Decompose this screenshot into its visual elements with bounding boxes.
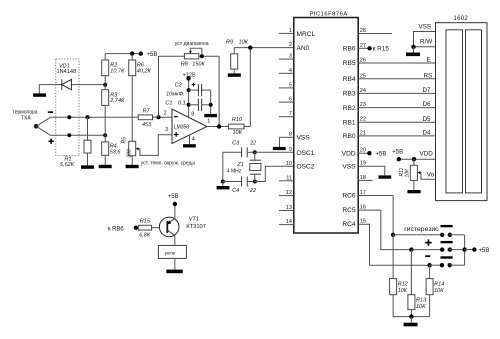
ground (oscillator) <box>217 182 230 190</box>
node to RB6 <box>108 226 138 233</box>
plus label row2 <box>425 242 431 244</box>
pin 20 VDD +5V <box>342 148 387 158</box>
pin 15 RC4 <box>342 219 366 229</box>
potentiometer R8 <box>158 48 219 126</box>
resistor R12 <box>390 235 408 317</box>
wire pin16 to row2 <box>358 210 411 250</box>
svg-text:к RB6: к RB6 <box>108 226 125 232</box>
LCD pin R/W <box>411 39 435 50</box>
diode VD1 <box>39 79 105 90</box>
svg-text:+5В: +5В <box>147 52 158 58</box>
wire C3/C4 left leg <box>222 152 224 181</box>
svg-text:28: 28 <box>360 28 366 34</box>
svg-text:+5В: +5В <box>479 248 490 254</box>
resistor R1 <box>60 117 91 168</box>
switch SA2 (plus) <box>409 241 464 252</box>
node inverting input <box>157 115 161 119</box>
svg-text:RB1: RB1 <box>343 119 356 126</box>
minus label row3 <box>425 255 430 257</box>
svg-text:R7: R7 <box>143 109 151 115</box>
pin 17 RC6 <box>342 190 366 200</box>
plus polarity mark <box>48 139 53 144</box>
svg-text:3: 3 <box>289 54 292 60</box>
ground (R9) <box>228 73 241 76</box>
+12V supply <box>183 72 196 80</box>
svg-text:R15: R15 <box>140 219 151 225</box>
pin 8 VSS with ground <box>273 132 310 150</box>
svg-text:40,2К: 40,2К <box>137 68 152 74</box>
svg-text:D4: D4 <box>423 130 432 137</box>
svg-text:12: 12 <box>286 190 292 196</box>
svg-text:R9: R9 <box>226 40 233 46</box>
wire OSC2 <box>255 166 294 181</box>
svg-text:R8: R8 <box>181 62 189 68</box>
pin 14 <box>279 219 294 225</box>
svg-text:20: 20 <box>360 148 366 154</box>
pin 3 <box>279 54 294 60</box>
svg-text:C2: C2 <box>175 83 182 89</box>
svg-text:RS: RS <box>424 73 433 80</box>
ground (R/W VSS) <box>406 47 420 56</box>
capacitor C4 <box>223 177 256 194</box>
svg-text:6: 6 <box>289 97 292 103</box>
ground (relay) <box>166 270 183 274</box>
svg-text:RB2: RB2 <box>343 105 356 112</box>
pin 16 RC5 <box>342 205 366 215</box>
pin 6 <box>279 97 294 103</box>
svg-text:R13: R13 <box>416 298 427 304</box>
svg-text:6,8К: 6,8К <box>139 233 151 239</box>
node R2/R3 junction <box>103 83 107 87</box>
svg-text:ТХА: ТХА <box>21 116 31 122</box>
resistor R15 <box>139 219 160 239</box>
svg-text:1N4148: 1N4148 <box>57 69 77 75</box>
capacitor C1 <box>165 99 210 111</box>
switch SA3 (minus) <box>427 256 464 267</box>
svg-text:PIC16F876A: PIC16F876A <box>310 12 348 18</box>
pin 24 RB3 wire to D7 <box>343 88 436 98</box>
svg-text:D5: D5 <box>423 116 432 123</box>
svg-text:AN0: AN0 <box>297 45 310 52</box>
svg-text:OSC1: OSC1 <box>297 150 315 157</box>
svg-text:VSS: VSS <box>297 135 311 142</box>
svg-text:10: 10 <box>286 161 292 167</box>
pin 12 <box>279 190 294 196</box>
capacitor C2 <box>166 83 211 98</box>
svg-text:LM358: LM358 <box>174 125 190 131</box>
pin 18 stub <box>358 175 372 181</box>
wire upper thermocouple line to R7 <box>50 116 138 118</box>
LCD pin VDD with +5V <box>392 149 435 161</box>
svg-text:Vo: Vo <box>427 172 435 179</box>
svg-text:1: 1 <box>289 28 292 34</box>
svg-text:RB3: RB3 <box>343 91 356 98</box>
svg-text:27: 27 <box>360 43 366 49</box>
svg-text:11: 11 <box>286 175 292 181</box>
svg-text:10,7К: 10,7К <box>110 68 125 74</box>
ground (R12 R13 R14) <box>404 317 418 327</box>
ground (R5) <box>126 165 139 168</box>
diode VD1 label <box>57 63 77 75</box>
svg-text:24: 24 <box>360 88 366 94</box>
svg-text:453: 453 <box>142 122 152 128</box>
svg-text:10К: 10К <box>404 168 410 178</box>
svg-text:7: 7 <box>289 111 292 117</box>
resistor R3 <box>102 90 125 136</box>
svg-text:10К: 10К <box>239 40 249 46</box>
ground (VD1 left) <box>33 85 46 97</box>
node on upper wire <box>67 115 71 119</box>
svg-text:OSC2: OSC2 <box>297 164 315 171</box>
svg-text:3: 3 <box>165 127 168 133</box>
svg-text:15: 15 <box>360 219 366 225</box>
thermocouple junction node <box>34 117 50 135</box>
svg-text:R5: R5 <box>121 137 127 144</box>
resistor R6 <box>129 54 152 142</box>
svg-text:8: 8 <box>191 112 194 118</box>
wire AN0 <box>234 47 294 49</box>
svg-text:D7: D7 <box>423 87 432 94</box>
svg-text:2: 2 <box>164 110 167 116</box>
svg-text:реле: реле <box>165 251 176 256</box>
svg-text:RB6: RB6 <box>343 46 356 53</box>
node rail row2 <box>462 247 466 251</box>
svg-text:19: 19 <box>360 161 366 167</box>
svg-text:22: 22 <box>249 141 256 147</box>
node AN0 <box>248 45 252 49</box>
node on lower wire <box>67 133 71 137</box>
svg-text:18: 18 <box>360 175 366 181</box>
op-amp pin8 supply line <box>188 78 190 117</box>
svg-text:4: 4 <box>289 68 292 74</box>
resistor R4 <box>102 135 122 165</box>
svg-text:21: 21 <box>360 130 366 136</box>
wire lower thermocouple line <box>50 134 105 136</box>
resistor R2 <box>102 54 125 90</box>
svg-text:R/W: R/W <box>420 39 432 46</box>
svg-text:1602: 1602 <box>454 16 469 22</box>
wire C1/C2 right to ground <box>209 90 213 114</box>
svg-text:13: 13 <box>286 205 292 211</box>
transistor VT1 KT3107 <box>159 217 206 237</box>
svg-text:к R15: к R15 <box>373 46 390 53</box>
thermocouple TXA label <box>13 110 38 122</box>
svg-text:10мкФ: 10мкФ <box>166 91 183 97</box>
+5V supply right <box>465 247 490 254</box>
svg-text:200: 200 <box>127 149 133 159</box>
ground (R4) <box>99 165 112 168</box>
svg-text:53,6: 53,6 <box>110 150 122 156</box>
svg-text:VSS: VSS <box>342 163 356 170</box>
svg-text:2: 2 <box>289 42 292 48</box>
svg-text:150К: 150К <box>192 62 205 68</box>
svg-text:10К: 10К <box>416 304 426 310</box>
relay box <box>158 236 186 270</box>
resistor R9 <box>226 40 249 74</box>
pin 26 RB5 wire to E <box>343 58 436 68</box>
svg-text:RC4: RC4 <box>342 221 356 228</box>
IC U2 PIC16F876A body <box>294 12 358 233</box>
pin 19 VSS to ground <box>342 161 391 179</box>
pin 10 OSC2 <box>286 161 315 171</box>
svg-text:10К: 10К <box>398 288 408 294</box>
pin 25 RB4 wire to RS <box>343 73 436 83</box>
pin 7 <box>279 111 294 117</box>
svg-text:10К: 10К <box>233 130 243 136</box>
node R3/R4 junction <box>103 133 107 137</box>
svg-text:2,74К: 2,74К <box>109 98 125 104</box>
wire R10 to AN0 <box>249 48 251 127</box>
svg-text:D6: D6 <box>423 101 432 108</box>
ground (R1) <box>81 165 94 168</box>
svg-text:RC5: RC5 <box>342 207 356 214</box>
svg-text:10К: 10К <box>434 288 444 294</box>
svg-text:25: 25 <box>360 73 366 79</box>
LCD pin VSS <box>414 24 436 47</box>
svg-text:+5В: +5В <box>168 194 179 200</box>
svg-text:VDD: VDD <box>342 150 356 157</box>
pin 5 <box>279 82 294 88</box>
pin 22 RB1 wire to D5 <box>343 117 436 127</box>
svg-text:C3: C3 <box>232 141 240 147</box>
svg-text:C1: C1 <box>165 101 172 107</box>
pin 11 <box>279 175 294 181</box>
svg-text:R10: R10 <box>232 117 243 123</box>
svg-text:+5В: +5В <box>376 151 387 157</box>
+5V supply top-left <box>105 51 157 58</box>
svg-text:VSS: VSS <box>419 24 432 31</box>
svg-text:R14: R14 <box>434 282 444 288</box>
wire bottom common <box>393 316 430 318</box>
pin 27 RB6 to R15 <box>343 43 390 53</box>
op-amp U1 LM358 <box>164 109 211 144</box>
svg-text:КТ3107: КТ3107 <box>186 224 206 230</box>
svg-text:+12В: +12В <box>183 72 196 78</box>
ground (C1 C2) <box>204 114 217 117</box>
svg-text:RB0: RB0 <box>343 133 356 140</box>
capacitor C3 <box>223 141 256 158</box>
resistor R7 <box>138 109 172 128</box>
node bottom <box>409 314 413 318</box>
resistor R13 <box>408 250 427 317</box>
wire pin15 to row3 <box>358 224 429 265</box>
svg-text:RC6: RC6 <box>342 193 356 200</box>
svg-text:Z1: Z1 <box>236 162 243 168</box>
node C4 left <box>221 180 225 184</box>
svg-text:C4: C4 <box>232 188 239 194</box>
pin 23 RB2 wire to D6 <box>343 102 436 112</box>
svg-text:RB4: RB4 <box>343 76 356 83</box>
svg-text:VDD: VDD <box>420 151 434 158</box>
pin 21 RB0 wire to D4 <box>343 130 436 140</box>
svg-text:уст. темп. окруж. среды: уст. темп. окруж. среды <box>141 161 196 167</box>
svg-text:4 MHz: 4 MHz <box>227 169 242 175</box>
svg-text:1: 1 <box>207 119 210 125</box>
potentiometer R5 <box>121 135 172 165</box>
svg-text:26: 26 <box>360 58 366 64</box>
pin 2 AN0 <box>289 42 310 52</box>
wire op-amp output <box>207 126 229 128</box>
node R1 top <box>86 115 90 119</box>
wire right rail <box>464 235 466 265</box>
wire OSC1 <box>255 151 294 153</box>
svg-text:14: 14 <box>286 219 292 225</box>
resistor R10 <box>229 117 251 136</box>
svg-text:4: 4 <box>192 137 195 143</box>
+5V supply VT1 <box>168 194 179 219</box>
svg-text:VT1: VT1 <box>189 217 199 223</box>
minus polarity mark <box>48 111 53 113</box>
pin 13 <box>279 205 294 211</box>
svg-text:MRCL: MRCL <box>297 31 316 38</box>
svg-text:0.1: 0.1 <box>178 101 186 107</box>
svg-text:5,62К: 5,62К <box>60 162 75 168</box>
svg-text:22: 22 <box>360 117 366 123</box>
svg-text:8: 8 <box>289 132 292 138</box>
pin 1 MCLR <box>279 28 316 38</box>
LCD 1602 module <box>436 16 488 200</box>
svg-text:RB5: RB5 <box>343 60 356 67</box>
svg-text:5: 5 <box>289 82 292 88</box>
svg-text:E: E <box>427 57 431 64</box>
svg-text:уст диапазона: уст диапазона <box>175 41 209 47</box>
resistor R14 <box>426 265 444 316</box>
switch SA1 (hysteresis) <box>391 225 465 237</box>
svg-text:22: 22 <box>249 188 256 194</box>
wire pin17 to hysteresis row1 <box>358 196 393 235</box>
node output <box>217 124 221 128</box>
svg-text:R12: R12 <box>398 282 408 288</box>
crystal Z1 <box>227 150 261 183</box>
svg-text:9: 9 <box>289 147 292 153</box>
svg-text:23: 23 <box>360 102 366 108</box>
pin 4 <box>279 68 294 74</box>
svg-text:R4: R4 <box>110 143 117 149</box>
ground (R11) <box>407 190 420 193</box>
thermal coupling dashed box <box>56 59 79 156</box>
svg-text:+5В: +5В <box>392 149 403 155</box>
op-amp pin4 ground <box>183 135 196 148</box>
pin 28 <box>358 28 392 34</box>
pin 9 OSC1 <box>289 147 315 157</box>
potentiometer R11 <box>399 159 436 190</box>
svg-text:гистерезис: гистерезис <box>404 226 439 233</box>
